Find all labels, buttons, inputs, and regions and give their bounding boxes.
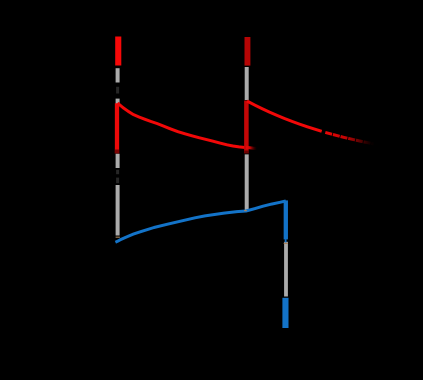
red event marker A <box>115 37 121 66</box>
vline B gray dashed segments (x=246.4) <box>245 67 249 211</box>
blue curve drop at C <box>284 200 288 239</box>
tan tick at A gray bottom <box>116 236 120 238</box>
tan tick at B gray bottom <box>244 210 247 212</box>
blue curve rise segment <box>115 201 285 242</box>
red vertical B dark tip <box>244 151 249 154</box>
tan dot at gray top C <box>284 242 288 244</box>
red curve decay 2 solid <box>247 101 322 131</box>
vline A faint dark dashes <box>116 87 119 183</box>
vline A gray dashed segments (x=117.4) <box>116 68 120 235</box>
red curve dose 2 rise (darker) <box>244 101 249 154</box>
red vertical A dark tip <box>115 150 119 154</box>
red curve 1 fading tail past dose 2 <box>246 147 256 148</box>
red curve decay 2 fading tail <box>325 132 374 144</box>
red event marker B (darker) <box>245 37 251 66</box>
red curve decay 1 <box>118 103 247 148</box>
blue drop tip stem <box>285 239 287 242</box>
blue event marker C <box>282 298 288 328</box>
red curve dose 1 rise <box>115 103 119 153</box>
vline C gray segment (x=283) <box>284 242 288 297</box>
